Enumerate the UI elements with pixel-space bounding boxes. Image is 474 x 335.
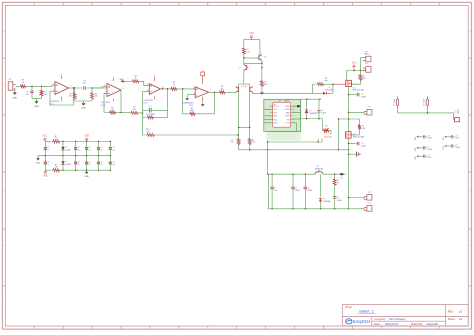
resistor R8 [170,82,178,90]
svg-text:GND: GND [443,137,445,140]
svg-text:U?.4: U?.4 [143,103,148,105]
svg-text:100nF: 100nF [361,145,366,147]
diode D grid 8 [61,156,70,171]
svg-text:NE555: NE555 [284,100,289,102]
svg-text:100nF: 100nF [428,149,433,151]
wire [178,88,196,89]
resistor R20 [333,174,339,196]
wire inverting input U1.4 [143,92,147,118]
power flag VCC grid [43,136,48,142]
svg-text:1k: 1k [173,85,175,87]
svg-text:GND: GND [34,106,39,108]
wire feedback U1.2 [50,88,74,105]
svg-text:1.0: 1.0 [459,309,463,313]
wire [140,81,147,85]
svg-text:LL4148: LL4148 [65,149,70,151]
power flag VDD [201,70,205,80]
wire [261,63,262,80]
mosfet Q6 [346,132,365,139]
svg-text:C?: C? [322,110,324,112]
svg-text:1u: 1u [89,164,91,166]
wire [116,112,130,113]
capacitor C4 [349,93,366,99]
capacitor C6 [270,174,277,209]
svg-text:7.5k: 7.5k [252,142,255,144]
capacitor C13 [455,108,461,122]
wire [71,87,108,88]
connector P1 audio input [8,79,15,90]
svg-text:4.7u: 4.7u [26,94,30,96]
svg-text:C?: C? [48,162,50,164]
svg-text:10k: 10k [69,96,72,98]
svg-text:GND: GND [12,98,17,100]
svg-text:GND: GND [36,163,41,165]
wire [398,112,455,119]
svg-text:10u: 10u [113,149,116,151]
svg-text:1k: 1k [112,110,114,112]
svg-text:10k: 10k [95,96,98,98]
connector P2 [360,51,371,62]
svg-text:8: 8 [293,119,294,121]
capacitor C grid 10 [85,156,91,171]
svg-text:C?: C? [48,147,50,149]
connector P6 [349,203,372,211]
wire [92,87,105,88]
resistor R19 gate B [351,119,366,135]
svg-text:VCC: VCC [274,109,279,111]
capacitor C grid 7 [44,156,50,171]
svg-text:12: 12 [147,84,149,86]
svg-text:C?: C? [101,147,103,149]
svg-text:13: 13 [147,90,149,92]
svg-text:GND: GND [84,176,89,178]
capacitor C grid 12 [109,156,116,171]
svg-text:4: 4 [61,74,62,76]
op-amp U1.2 [50,74,71,106]
svg-text:1k: 1k [337,182,339,184]
svg-text:1u: 1u [89,149,91,151]
diode D3 [305,99,318,119]
wire grid bottom rail [45,169,111,170]
EasyEDA logo [346,319,371,325]
ground [34,99,39,109]
svg-text:TITLE:: TITLE: [345,306,353,309]
op-amp U1.4 [143,75,160,105]
resistor R21 grid top [45,136,61,143]
svg-text:D?: D? [65,162,67,164]
ground [81,101,86,110]
svg-text:1/1: 1/1 [459,317,463,321]
wire [268,139,322,143]
svg-text:1N4746A: 1N4746A [323,200,331,203]
op-amp U1.3 pin numbers [104,85,123,94]
capacitor C grid 1 [44,142,50,156]
svg-text:11: 11 [61,101,63,103]
svg-text:C?: C? [78,147,80,149]
resistor R14 [260,80,268,92]
svg-text:2019-04-27: 2019-04-27 [385,322,399,326]
svg-text:9: 9 [105,92,106,94]
svg-text:100k: 100k [190,110,194,112]
svg-text:100nF: 100nF [337,200,342,202]
svg-text:8: 8 [122,88,123,90]
connector P5 [349,192,372,200]
diode D grid 2 [61,142,70,156]
svg-text:11: 11 [293,109,295,111]
capacitor C2 series [83,80,87,90]
svg-text:1u: 1u [101,164,103,166]
wire grid top rail [61,141,112,142]
ground grid mid [84,170,89,178]
capacitor C grid 11 [97,156,103,171]
svg-text:Sheet_1: Sheet_1 [359,309,375,314]
svg-text:IN1-: IN1- [274,112,278,114]
svg-text:P?: P? [368,203,370,205]
transistor pair Q3 Q4 [234,84,253,93]
title block frame [342,305,468,326]
capacitor C grid 5 [97,142,103,156]
power flag VCC [249,33,254,40]
svg-text:R? 100kR: R? 100kR [146,114,155,116]
svg-text:1u: 1u [78,164,80,166]
svg-text:C?: C? [428,147,430,149]
resistor R3 [91,88,98,101]
ground grid left [36,156,41,165]
svg-text:100nF: 100nF [428,138,433,140]
wire grid mid rail [38,155,111,156]
svg-text:Your Company: Your Company [389,317,407,321]
svg-text:Q?: Q? [239,67,241,69]
op-amp U1.3 [101,78,121,108]
wire IC zone vertical [267,131,268,174]
svg-text:10k: 10k [221,88,224,90]
capacitor C15 decoupling [415,146,432,151]
wire [313,83,346,93]
resistor R13 [242,47,250,59]
svg-text:1u: 1u [78,149,80,151]
svg-text:1uF: 1uF [274,190,277,192]
svg-text:Date:: Date: [374,322,380,326]
resistor R7 feedback [143,89,168,119]
resistor R10 hysteresis [189,108,196,115]
wire [32,98,42,100]
capacitor C14 decoupling [415,135,432,140]
wire [244,57,259,59]
svg-text:GND: GND [285,112,290,114]
net port arrow [297,105,301,107]
resistor R1 [20,80,27,88]
transistor Q7 pass [315,166,324,174]
ground earth symbol [349,152,360,157]
svg-text:1u: 1u [101,149,103,151]
wire [27,85,56,87]
svg-text:VEE: VEE [43,175,48,177]
svg-text:C?: C? [428,155,430,157]
svg-text:7.5k: 7.5k [230,142,233,144]
svg-text:C?: C? [89,162,91,164]
svg-text:1u: 1u [48,164,50,166]
svg-text:C?: C? [456,136,458,138]
wire [338,118,360,150]
capacitor C grid 6 [109,142,116,156]
svg-text:C? 10uF: C? 10uF [394,98,396,106]
wire right base [253,92,313,95]
net port arrow [340,173,344,180]
capacitor C grid 4 [85,142,91,156]
svg-text:IN2-: IN2- [274,119,278,121]
wire [139,112,143,113]
svg-text:1N4148WS: 1N4148WS [310,113,318,115]
wire IC left stubs [264,109,271,122]
svg-text:Sheet:: Sheet: [448,317,456,321]
svg-text:VDD: VDD [84,136,89,138]
op-amp U2.1 pin numbers [193,87,210,95]
svg-text:50k: 50k [44,94,47,96]
capacitor C16 decoupling [415,155,431,160]
resistor R5 [130,107,139,115]
svg-text:5.1k: 5.1k [133,109,136,111]
svg-text:100nF: 100nF [322,113,327,115]
wire [160,88,170,89]
capacitor C18 decoupling [443,144,460,149]
svg-text:10: 10 [104,85,106,87]
connector P4 [349,107,372,115]
svg-text:VO2: VO2 [286,123,290,125]
svg-text:10k: 10k [146,131,149,133]
svg-text:sebiyaraff: sebiyaraff [427,322,438,326]
svg-text:1u: 1u [48,149,50,151]
resistor R17 gate [313,78,333,86]
svg-text:Q? Q?: Q? Q? [241,86,248,88]
svg-text:10uF: 10uF [456,138,460,140]
svg-text:P?: P? [365,64,367,66]
ground [260,92,264,94]
capacitor C12 vertical [424,97,429,113]
wire source B [348,138,349,209]
IC pins [269,106,295,125]
wire [347,70,366,81]
svg-text:SIHLL110-GE3: SIHLL110-GE3 [353,136,364,138]
svg-text:5: 5 [53,83,54,85]
wire bottom rail of diff pair [239,145,350,150]
svg-text:LL4148: LL4148 [65,164,70,166]
op-amp U1.2 pin numbers [53,83,71,91]
resistor R9 [146,129,155,136]
IC highlight zone [264,99,301,131]
svg-text:D?: D? [65,147,67,149]
capacitor C17 decoupling [443,135,459,140]
ground [12,89,17,100]
resistor R15 [230,138,240,145]
svg-text:C?: C? [113,162,115,164]
svg-text:GND: GND [415,137,417,140]
svg-text:10u: 10u [113,164,116,166]
svg-text:C?: C? [78,162,80,164]
wire [323,173,345,174]
svg-text:SGM8582XS: SGM8582XS [182,102,194,104]
svg-text:Output-B: Output-B [324,135,333,138]
wire emitters down [238,93,251,138]
power flag VCC [352,63,357,71]
wire mid rail [301,118,323,119]
svg-text:VDD: VDD [286,106,291,108]
svg-text:10uF: 10uF [428,157,432,159]
wire IC right stubs [292,106,300,131]
svg-text:Q?: Q? [264,57,266,59]
wire source A [348,87,349,132]
svg-text:2.2k: 2.2k [54,167,57,169]
transistor Q1 [239,58,262,84]
svg-text:VCC: VCC [352,63,357,65]
power flag VDD grid mid [84,136,89,142]
title block texts [345,306,463,326]
svg-text:OUT1: OUT1 [274,106,279,108]
svg-text:VCC: VCC [249,33,254,35]
capacitor C9 [333,197,342,209]
connector P3 [360,58,371,72]
wire [75,100,92,102]
resistor R2 [69,88,76,101]
svg-text:100uF: 100uF [458,108,460,114]
svg-text:3: 3 [193,87,194,89]
capacitor C8 [304,174,312,209]
op-amp U2.1 comparator [182,80,209,107]
wire [267,99,301,131]
capacitor C grid 9 [74,156,80,171]
svg-text:C?: C? [456,145,458,147]
svg-text:1: 1 [210,90,211,92]
svg-text:2.2u: 2.2u [83,83,87,85]
wire power rail bottom [268,174,348,209]
wire [209,92,219,93]
potentiometer RV2 [323,119,333,139]
svg-text:3: 3 [269,112,270,114]
resistor R4 [109,107,116,114]
svg-text:GND: GND [415,148,417,151]
op-amp U3 IC body [273,100,291,127]
svg-text:TL074CN: TL074CN [50,101,60,103]
svg-text:HDR2: HDR2 [364,54,369,56]
svg-text:C?: C? [101,162,103,164]
svg-text:EasyEDA: EasyEDA [353,319,371,324]
svg-text:P?: P? [368,107,370,109]
capacitor C grid 3 [74,142,80,156]
diode D1 parallel [313,87,335,95]
op-amp U1.4 pin numbers [147,84,164,92]
svg-text:7: 7 [70,86,71,88]
svg-text:220uF: 220uF [295,190,300,192]
zener diode D2 [319,174,331,209]
resistor R11 [219,86,226,94]
wire feedback U1.3 [104,93,109,112]
svg-text:C? 10uF: C? 10uF [424,98,426,106]
wire [16,85,20,87]
resistor R16 [248,138,255,145]
wire long to diff pair [155,134,239,135]
capacitor C1 [26,86,34,98]
svg-text:Drawn By:: Drawn By: [411,322,423,326]
potentiometer RV1 [40,86,48,98]
svg-text:4: 4 [154,75,155,77]
svg-text:100nF: 100nF [307,190,312,192]
svg-text:REV:: REV: [448,309,454,313]
resistor R6 [126,75,140,82]
capacitor C10 [317,99,326,119]
ground [201,101,205,107]
capacitor C3 feedback [143,106,168,113]
svg-text:100nF: 100nF [361,96,366,98]
svg-text:1k: 1k [135,78,137,80]
resistor R18 gate A [351,71,366,85]
svg-text:C?: C? [113,147,115,149]
svg-text:R?: R? [325,125,327,127]
svg-text:6: 6 [53,89,54,91]
svg-text:GND: GND [81,108,86,110]
transistor Q2 [259,53,266,63]
resistor R22 grid bottom [52,164,61,171]
wire [244,40,260,53]
svg-text:100nF: 100nF [456,147,461,149]
svg-text:U?.3: U?.3 [101,105,106,107]
wire mid horizontal [317,139,319,142]
capacitor C7 polarized [289,174,299,209]
svg-text:Company:: Company: [374,317,386,321]
svg-text:GND: GND [415,156,417,159]
wire top rail [301,98,321,99]
svg-text:SIHLL110-GE3: SIHLL110-GE3 [353,90,364,92]
wire hysteresis loop [183,89,215,114]
ground flag [120,79,126,82]
svg-text:9: 9 [293,116,294,118]
svg-text:P?: P? [368,192,370,194]
svg-text:OUT2: OUT2 [285,109,290,111]
wire [120,90,122,113]
capacitor C5 [349,142,366,148]
svg-text:GND: GND [120,79,125,81]
svg-text:VCC: VCC [43,136,48,138]
mosfet Q5 [346,80,364,91]
wire [226,91,234,93]
wire power rail top [267,173,315,174]
svg-text:C?: C? [89,147,91,149]
svg-text:2: 2 [193,93,194,95]
power flag VEE [43,170,48,177]
svg-text:2.2k: 2.2k [54,139,57,141]
svg-text:1: 1 [269,106,270,108]
ground [185,95,192,101]
svg-text:D?: D? [310,111,312,113]
svg-text:C?: C? [428,136,430,138]
svg-text:GND: GND [443,146,445,149]
capacitor C11 vertical [394,97,399,113]
svg-text:Q?: Q? [317,166,319,168]
svg-text:TL074CN: TL074CN [101,102,111,104]
wire [143,117,146,135]
